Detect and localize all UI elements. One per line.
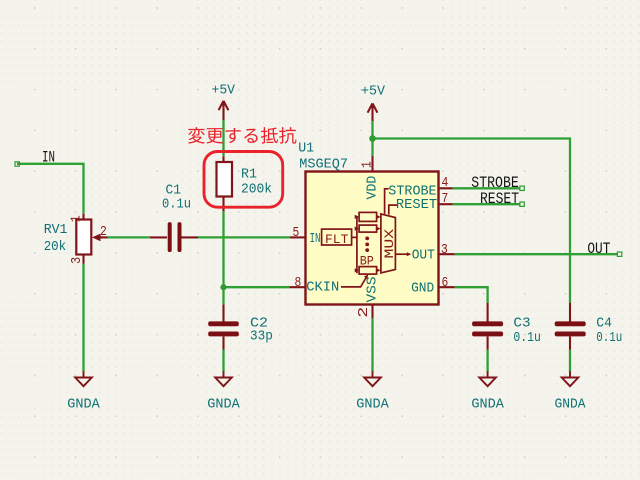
- svg-text:R1: R1: [241, 166, 257, 182]
- svg-text:+5V: +5V: [212, 82, 236, 98]
- svg-text:6: 6: [442, 276, 449, 291]
- junction +5V rail at U1 pin1: [369, 135, 376, 142]
- annotation text 変更する抵抗: [188, 127, 296, 144]
- ground GNDA symbol under C4: [562, 371, 579, 386]
- wire node to U1 pin8: [224, 286, 290, 288]
- potentiometer RV1 wiper arrow pin2: [99, 236, 108, 238]
- svg-text:VSS: VSS: [365, 277, 380, 303]
- capacitor C3 pin stubs: [487, 303, 489, 350]
- svg-text:MUX: MUX: [382, 229, 397, 259]
- wire RV1 pin3 to GNDA: [82, 264, 84, 372]
- capacitor C3 plates: [472, 321, 503, 336]
- svg-text:RV1: RV1: [44, 222, 68, 238]
- wire U1 pin4 to STROBE label: [453, 187, 521, 189]
- svg-text:RESET: RESET: [396, 198, 437, 213]
- U1 graphic: filter block rect mid: [359, 225, 377, 232]
- svg-text:+5V: +5V: [361, 84, 385, 100]
- U1 pin 8 stub (CKIN left): [289, 286, 305, 288]
- wire C1 right to U1 pin5: [198, 236, 290, 238]
- wire C2 bottom to GNDA: [222, 350, 224, 372]
- svg-text:20k: 20k: [44, 239, 66, 255]
- svg-text:CKIN: CKIN: [306, 281, 339, 296]
- svg-text:MSGEQ7: MSGEQ7: [299, 157, 348, 173]
- svg-text:0.1u: 0.1u: [513, 330, 541, 346]
- wire U1 pin7 to RESET label: [453, 203, 521, 205]
- U1 graphic: filter block rect top: [359, 212, 377, 221]
- svg-text:33p: 33p: [250, 328, 273, 344]
- U1 graphic: arrows into filter blocks: [355, 215, 359, 273]
- svg-text:RESET: RESET: [480, 190, 519, 208]
- capacitor C1 left pin stub: [150, 236, 167, 238]
- potentiometer RV1 pin3 stub: [82, 255, 84, 264]
- svg-text:BP: BP: [360, 253, 374, 268]
- wire U1 pin3 to OUT label: [455, 253, 618, 255]
- svg-text:4: 4: [442, 176, 449, 191]
- svg-text:C4: C4: [596, 315, 612, 331]
- wire R1 bottom through node to C2 top: [222, 211, 224, 304]
- U1 graphic: arrows into MUX: [376, 215, 380, 273]
- U1 graphic: FLT box: [322, 229, 352, 245]
- svg-text:3: 3: [70, 257, 85, 264]
- U1 graphic: OUT arrow: [395, 253, 407, 255]
- U1 graphic: FLT to filter bus line: [352, 216, 357, 273]
- wire +5V rail to U1 pin1: [371, 121, 373, 156]
- U1 pin 3 stub (OUT right): [439, 253, 455, 255]
- U1 pin 4 stub (STROBE right): [439, 187, 453, 189]
- svg-text:2: 2: [100, 225, 107, 240]
- U1 pin 7 stub (RESET right): [439, 203, 453, 205]
- potentiometer RV1 body: [76, 220, 91, 255]
- svg-text:GNDA: GNDA: [207, 396, 240, 412]
- svg-text:OUT: OUT: [587, 240, 610, 258]
- svg-text:IN: IN: [310, 232, 321, 247]
- svg-text:8: 8: [295, 276, 302, 291]
- svg-text:GNDA: GNDA: [67, 396, 100, 412]
- wire C3 bottom to GNDA: [486, 350, 488, 372]
- potentiometer RV1 pin1 stub: [82, 214, 84, 220]
- svg-text:GND: GND: [411, 282, 434, 297]
- ground GNDA symbol under RV1: [75, 371, 92, 386]
- svg-text:5: 5: [293, 226, 300, 241]
- svg-text:GNDA: GNDA: [356, 396, 389, 412]
- svg-text:1: 1: [70, 215, 85, 222]
- ground GNDA symbol under C3: [479, 371, 496, 386]
- capacitor C4 plates: [555, 321, 586, 336]
- U1 graphic: MUX trapezoid: [381, 214, 396, 273]
- U1 graphic: CKIN arrow to divider: [341, 277, 367, 287]
- op-amp U1 MSGEQ7 body: [306, 172, 439, 305]
- svg-text:0.1u: 0.1u: [162, 197, 191, 213]
- resistor R1 body: [217, 162, 233, 197]
- ground GNDA symbol under C2: [215, 371, 232, 386]
- unconnected end square at STROBE: [520, 186, 524, 190]
- wire +5V to R1 top: [222, 120, 224, 156]
- U1 graphic: RESET select bracket: [389, 205, 398, 215]
- svg-text:0.1u: 0.1u: [596, 330, 622, 346]
- svg-text:OUT: OUT: [412, 248, 435, 263]
- junction node between R1/C2/pin8: [220, 284, 226, 290]
- capacitor C1 plates: [168, 222, 182, 252]
- svg-text:GNDA: GNDA: [555, 396, 586, 412]
- unconnected end square at OUT: [617, 252, 621, 256]
- wire U1 pin6 to C3 top: [455, 287, 488, 303]
- svg-text:GNDA: GNDA: [471, 396, 504, 412]
- U1 pin 1 stub (VDD top): [371, 156, 373, 172]
- capacitor C2 pin stubs: [222, 304, 224, 349]
- capacitor C2 plates: [208, 321, 239, 336]
- U1 graphic: ellipsis dots: [365, 237, 369, 253]
- U1 graphic: STROBE select bracket: [385, 189, 389, 214]
- annotation highlight rounded box around R1: [204, 152, 283, 208]
- resistor R1 top pin stub: [222, 156, 224, 162]
- power +5V symbol above R1: [219, 101, 229, 120]
- U1 pin 6 stub (GND right): [439, 286, 455, 288]
- svg-text:FLT: FLT: [325, 233, 349, 247]
- unconnected end square at IN label: [15, 162, 19, 166]
- capacitor C1 right pin stub: [181, 236, 198, 238]
- U1 pin 2 stub (VSS bottom): [371, 305, 373, 319]
- power +5V symbol above U1 pin1: [368, 103, 378, 121]
- svg-text:3: 3: [441, 243, 448, 258]
- svg-text:VDD: VDD: [365, 176, 380, 200]
- capacitor C4 pin stubs: [569, 303, 571, 350]
- unconnected end square at RESET: [520, 202, 524, 206]
- resistor R1 bottom pin stub: [222, 197, 224, 212]
- U1 graphic: filter block rect bottom: [359, 267, 377, 275]
- U1 pin 5 stub (IN left): [290, 236, 306, 238]
- svg-text:7: 7: [442, 192, 449, 207]
- wire C4 bottom to GNDA: [569, 350, 571, 372]
- wire +5V rail to C4 top corner: [373, 139, 571, 303]
- wire RV1 wiper to C1 left: [108, 236, 151, 238]
- svg-text:2: 2: [357, 307, 372, 318]
- svg-text:C3: C3: [513, 315, 530, 331]
- svg-text:U1: U1: [298, 141, 314, 157]
- ground GNDA symbol under U1 pin2: [364, 371, 381, 386]
- wire U1 pin2 to GNDA: [371, 318, 373, 371]
- svg-text:IN: IN: [42, 148, 55, 166]
- svg-text:1: 1: [361, 161, 376, 168]
- svg-text:200k: 200k: [241, 181, 272, 197]
- wire net IN: label square to RV1 pin1: [17, 164, 84, 214]
